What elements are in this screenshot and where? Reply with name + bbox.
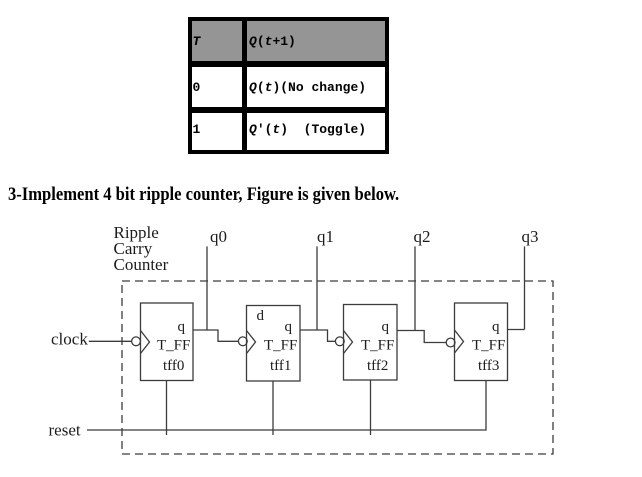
table cell Q(t)(No change) [247,67,386,107]
row2 text 1 [193,122,201,137]
wire q1 riser [316,246,318,330]
label T_FF of tff0 [157,338,190,354]
label T_FF of tff3 [472,338,505,354]
clock bubble tff1 [238,337,247,346]
pin label q of tff2 [382,319,390,335]
wire q of tff0 to node q0 and tff1 clock [193,330,239,341]
node q3 label [522,227,539,246]
svg-text:tff0: tff0 [163,358,184,374]
pin label q of tff3 [492,319,500,335]
designator tff3 [478,358,499,374]
row1 text Q(t)(No change) [249,80,366,95]
svg-text:q: q [178,319,186,335]
pin label d of tff1 [257,308,265,324]
svg-text:T_FF: T_FF [472,338,505,354]
header text Q(t+1) [249,34,296,49]
svg-text:T_FF: T_FF [361,338,394,354]
flip-flop tff3 body [455,303,508,381]
svg-text:q: q [285,319,293,335]
wire q of tff3 to node q3 [508,329,525,331]
svg-text:reset: reset [49,421,81,440]
dashed counter boundary box [122,281,553,454]
flip-flop tff1 body [247,306,301,382]
node q2 label [414,227,431,246]
designator tff2 [367,358,388,374]
svg-text:q2: q2 [414,227,431,246]
svg-text:Counter: Counter [114,255,169,274]
svg-text:q3: q3 [522,227,539,246]
flip-flop tff2 body [344,305,398,381]
heading: 3-Implement 4 bit ripple counter [8,184,399,206]
designator tff0 [163,358,184,374]
truth table T / Q(t+1) [188,17,389,154]
wire q2 riser [414,246,416,330]
node q0 label [210,227,227,246]
svg-text:clock: clock [51,330,88,349]
table header cell T (gray) [192,21,242,61]
table cell 1 [192,113,242,150]
label T_FF of tff1 [264,338,297,354]
designator tff1 [270,358,291,374]
svg-text:tff3: tff3 [478,358,499,374]
table header cell Q(t+1) (gray) [247,21,386,61]
svg-text:q: q [492,319,500,335]
svg-text:T_FF: T_FF [157,338,190,354]
wire clock [89,340,132,342]
reset input label [49,421,81,440]
svg-text:d: d [257,308,265,324]
table cell 0 [192,67,242,107]
svg-text:tff1: tff1 [270,358,291,374]
wire q of tff1 to node q1 and tff2 clock [300,330,336,341]
row2 text Q'(t) (Toggle) [249,122,366,137]
wire reset drop tff0 [166,381,168,436]
row1 text 0 [193,80,201,95]
wire q3 riser [524,246,526,329]
svg-text:tff2: tff2 [367,358,388,374]
svg-text:q1: q1 [317,227,334,246]
clock bubble tff0 [132,337,141,346]
pin label q of tff1 [285,319,293,335]
label Ripple Carry Counter [114,223,169,274]
node q1 label [317,227,334,246]
flip-flop tff0 body [141,303,194,381]
wire q of tff2 to node q2 and tff3 clock [397,331,446,343]
clock input label [51,330,88,349]
clock bubble tff3 [446,338,455,347]
wire q0 riser [206,246,208,330]
svg-text:T_FF: T_FF [264,338,297,354]
pin label q of tff0 [178,319,186,335]
wire reset bus [87,381,486,431]
svg-text:q0: q0 [210,227,227,246]
table cell Q'(t) (Toggle) [247,113,386,150]
label T_FF of tff2 [361,338,394,354]
wire reset drop tff2 [370,380,372,435]
clock bubble tff2 [335,337,344,346]
svg-text:q: q [382,319,390,335]
wire reset drop tff1 [272,381,274,435]
header text T [193,34,201,49]
